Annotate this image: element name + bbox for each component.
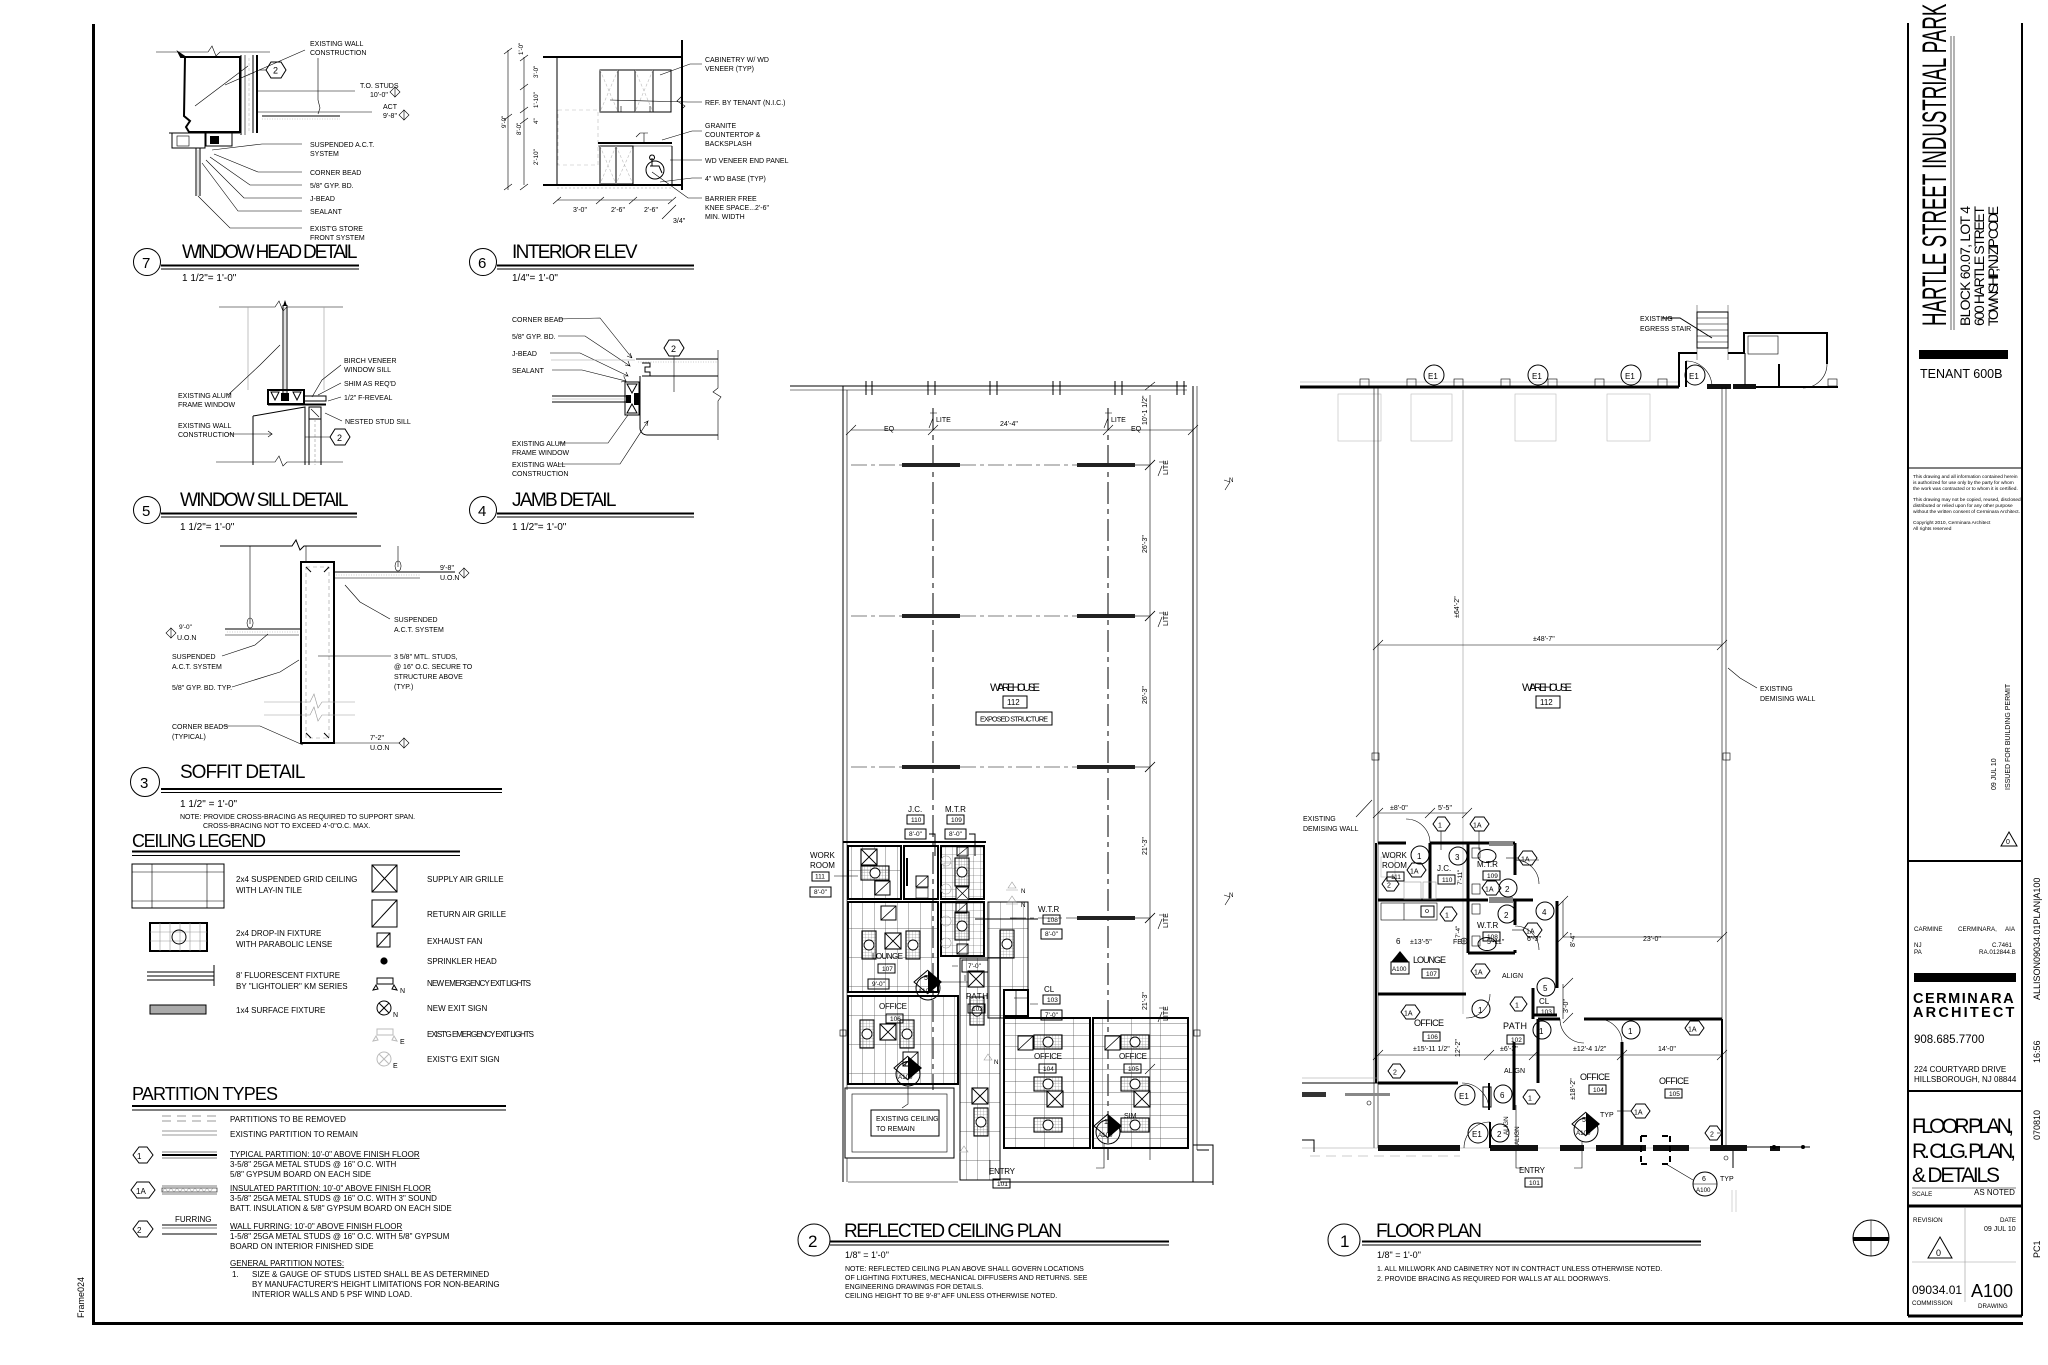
svg-text:EXISTING CEILING: EXISTING CEILING bbox=[876, 1116, 939, 1123]
svg-text:INTERIOR ELEV: INTERIOR ELEV bbox=[512, 242, 638, 263]
svg-text:1A: 1A bbox=[1404, 1011, 1413, 1018]
svg-text:N: N bbox=[1021, 888, 1025, 895]
partition tag hexagon 1A bbox=[1631, 1104, 1650, 1118]
j-bead shape bbox=[642, 363, 650, 376]
svg-text:HARTLE STREET INDUSTRIAL PARK: HARTLE STREET INDUSTRIAL PARK bbox=[1915, 4, 1953, 326]
svg-text:LITE: LITE bbox=[936, 417, 951, 424]
svg-text:HILLSBOROUGH, NJ 08844: HILLSBOROUGH, NJ 08844 bbox=[1914, 1075, 2017, 1084]
svg-text:N: N bbox=[1021, 902, 1025, 909]
svg-text:109: 109 bbox=[951, 817, 962, 824]
svg-text:104: 104 bbox=[1593, 1087, 1604, 1094]
svg-text:CABINETRY W/ WD: CABINETRY W/ WD bbox=[705, 57, 769, 64]
svg-text:109: 109 bbox=[1487, 873, 1498, 880]
svg-text:2: 2 bbox=[273, 66, 278, 76]
svg-text:JAMB DETAIL: JAMB DETAIL bbox=[512, 490, 616, 511]
wall below bbox=[253, 407, 305, 465]
svg-text:WITH LAY-IN TILE: WITH LAY-IN TILE bbox=[236, 886, 302, 895]
svg-text:AS NOTED: AS NOTED bbox=[1974, 1188, 2015, 1197]
beam row 1 bbox=[902, 463, 960, 467]
svg-text:PC1: PC1 bbox=[2032, 1240, 2042, 1258]
svg-text:DEMISING WALL: DEMISING WALL bbox=[1303, 826, 1358, 833]
svg-text:FRAME WINDOW: FRAME WINDOW bbox=[178, 402, 236, 409]
svg-text:SUSPENDED: SUSPENDED bbox=[172, 654, 216, 661]
svg-text:8'-4": 8'-4" bbox=[1570, 933, 1577, 947]
svg-text:PARTITIONS TO BE REMOVED: PARTITIONS TO BE REMOVED bbox=[230, 1115, 346, 1124]
partition tag hexagon 2 bbox=[1388, 1064, 1405, 1078]
svg-text:1.: 1. bbox=[232, 1270, 239, 1279]
svg-text:A.C.T. SYSTEM: A.C.T. SYSTEM bbox=[172, 664, 222, 671]
new emergency exit lights symbol bbox=[377, 978, 393, 984]
svg-text:ISSUED FOR BUILDING PERMIT: ISSUED FOR BUILDING PERMIT bbox=[2005, 683, 2012, 790]
hex 1A above cluster bbox=[1470, 817, 1489, 831]
right wall line bbox=[681, 40, 683, 190]
issue triangle bbox=[2001, 832, 2017, 846]
svg-text:N: N bbox=[393, 1012, 398, 1019]
svg-text:KNEE SPACE...2'-6": KNEE SPACE...2'-6" bbox=[705, 205, 770, 212]
svg-text:1: 1 bbox=[1438, 823, 1442, 830]
door/keynote circle tag 3 bbox=[1449, 847, 1467, 865]
svg-text:112: 112 bbox=[1007, 698, 1020, 707]
right tail stubs bbox=[1732, 1151, 1734, 1168]
svg-text:1A: 1A bbox=[136, 1187, 146, 1196]
svg-text:(TYPICAL): (TYPICAL) bbox=[172, 734, 206, 741]
svg-text:NEW EMERGENCY EXIT LIGHTS: NEW EMERGENCY EXIT LIGHTS bbox=[427, 979, 531, 988]
title underline bbox=[161, 265, 359, 267]
lobby entry door arc bbox=[1686, 361, 1712, 387]
svg-text:±12'-4 1/2": ±12'-4 1/2" bbox=[1573, 1046, 1607, 1053]
svg-text:0: 0 bbox=[1936, 1248, 1941, 1258]
svg-text:CONSTRUCTION: CONSTRUCTION bbox=[310, 50, 366, 57]
svg-text:105: 105 bbox=[1128, 1066, 1139, 1073]
svg-text:2'-6": 2'-6" bbox=[644, 207, 658, 214]
svg-text:TENANT 600B: TENANT 600B bbox=[1920, 367, 2002, 381]
svg-text:A100: A100 bbox=[1576, 1130, 1591, 1137]
svg-text:110: 110 bbox=[911, 817, 922, 824]
work room bbox=[848, 846, 901, 899]
svg-text:9'-0": 9'-0" bbox=[501, 116, 508, 128]
svg-text:A100: A100 bbox=[918, 988, 933, 995]
svg-text:106: 106 bbox=[890, 1016, 901, 1023]
svg-text:103: 103 bbox=[1047, 997, 1058, 1004]
bottom wall right portion bbox=[1000, 1181, 1213, 1183]
svg-text:1: 1 bbox=[1478, 1006, 1483, 1015]
type 1 hexagon bbox=[133, 1147, 153, 1163]
svg-text:without the written consent of: without the written consent of Cerminara… bbox=[1913, 509, 2020, 515]
svg-text:7'-4": 7'-4" bbox=[1455, 926, 1462, 938]
svg-text:SIM: SIM bbox=[1124, 1113, 1137, 1120]
svg-text:14'-0": 14'-0" bbox=[1658, 1046, 1676, 1053]
svg-text:110: 110 bbox=[1442, 877, 1453, 884]
svg-text:PATH: PATH bbox=[1503, 1021, 1527, 1031]
svg-text:EXISTING WALL: EXISTING WALL bbox=[310, 41, 364, 48]
svg-text:5/8" GYP. BD.: 5/8" GYP. BD. bbox=[310, 183, 354, 190]
svg-text:7'-11": 7'-11" bbox=[1457, 870, 1464, 885]
svg-text:8'-0": 8'-0" bbox=[814, 889, 828, 896]
egress stair bbox=[1696, 305, 1698, 360]
suspended ACT line bbox=[258, 111, 372, 113]
svg-text:TYPICAL PARTITION: 10'-0" ABOV: TYPICAL PARTITION: 10'-0" ABOVE FINISH F… bbox=[230, 1150, 420, 1159]
svg-text:A100: A100 bbox=[1392, 966, 1407, 973]
vestibule walls left bbox=[1302, 1082, 1378, 1084]
svg-text:N: N bbox=[1229, 477, 1233, 484]
cluster walls vertical bbox=[1430, 843, 1515, 953]
supply air grille symbol bbox=[372, 865, 397, 892]
title underline bbox=[497, 513, 694, 515]
svg-text:E1: E1 bbox=[1428, 372, 1438, 381]
title bubble 7 bbox=[134, 249, 161, 276]
svg-text:112: 112 bbox=[1540, 698, 1553, 707]
door/keynote circle tag 2 bbox=[1499, 879, 1517, 897]
svg-text:CEILING LEGEND: CEILING LEGEND bbox=[132, 831, 266, 851]
break line top bbox=[219, 301, 343, 311]
break across box bbox=[264, 694, 355, 708]
svg-text:NJ: NJ bbox=[1914, 942, 1922, 949]
separator thick bbox=[1908, 1205, 2022, 1208]
svg-text:INTERIOR WALLS AND 5 PSF WIND: INTERIOR WALLS AND 5 PSF WIND LOAD. bbox=[252, 1290, 412, 1299]
svg-text:U.O.N: U.O.N bbox=[370, 745, 389, 752]
svg-text:4" WD BASE (TYP): 4" WD BASE (TYP) bbox=[705, 176, 766, 183]
svg-text:EXPOSED STRUCTURE: EXPOSED STRUCTURE bbox=[980, 715, 1048, 724]
svg-text:8'-0": 8'-0" bbox=[516, 123, 523, 135]
svg-text:9'-8": 9'-8" bbox=[440, 565, 454, 572]
svg-text:1A: 1A bbox=[1688, 1027, 1697, 1034]
svg-text:M.T.R: M.T.R bbox=[945, 805, 966, 814]
structure above break line bbox=[220, 540, 381, 550]
svg-text:J-BEAD: J-BEAD bbox=[310, 196, 335, 203]
svg-text:COMMISSION: COMMISSION bbox=[1912, 1300, 1953, 1307]
svg-text:1/4"= 1'-0": 1/4"= 1'-0" bbox=[512, 273, 558, 284]
svg-text:6: 6 bbox=[1702, 1176, 1706, 1183]
svg-text:7'-2": 7'-2" bbox=[370, 735, 384, 742]
cluster top dims bbox=[1378, 812, 1467, 814]
wall top line bbox=[636, 358, 718, 360]
svg-text:2: 2 bbox=[1497, 1130, 1502, 1139]
svg-text:BACKSPLASH: BACKSPLASH bbox=[705, 141, 752, 148]
svg-text:EGRESS STAIR: EGRESS STAIR bbox=[1640, 326, 1691, 333]
svg-text:E1: E1 bbox=[1689, 372, 1699, 381]
svg-text:MIN. WIDTH: MIN. WIDTH bbox=[705, 214, 745, 221]
column ticks on top wall bbox=[866, 381, 1184, 395]
svg-text:1'-0": 1'-0" bbox=[518, 43, 525, 55]
svg-text:WAREHOUSE: WAREHOUSE bbox=[1522, 682, 1572, 694]
svg-text:DEMISING WALL: DEMISING WALL bbox=[1760, 696, 1815, 703]
bottom wall pieces of lobby bbox=[1707, 384, 1731, 389]
svg-text:SYSTEM: SYSTEM bbox=[310, 151, 339, 158]
svg-text:102: 102 bbox=[1511, 1037, 1522, 1044]
svg-text:0: 0 bbox=[2006, 839, 2010, 846]
svg-text:107: 107 bbox=[882, 966, 893, 973]
type 1 symbol bbox=[162, 1151, 217, 1153]
office 105 bbox=[1093, 1018, 1188, 1148]
svg-text:5: 5 bbox=[924, 975, 928, 982]
svg-text:2: 2 bbox=[1504, 911, 1509, 920]
separator bbox=[1908, 467, 2022, 469]
wall block bbox=[640, 376, 718, 435]
column line B bbox=[1107, 408, 1109, 1160]
svg-text:EQ: EQ bbox=[1131, 426, 1142, 433]
svg-text:VENEER (TYP): VENEER (TYP) bbox=[705, 66, 754, 73]
beam row 2 bbox=[902, 614, 960, 618]
svg-text:SHIM AS REQ'D: SHIM AS REQ'D bbox=[344, 381, 396, 388]
right wall bottom notch bbox=[1193, 1145, 1213, 1185]
floor line bbox=[543, 184, 683, 186]
svg-text:WORK: WORK bbox=[810, 851, 836, 860]
column line A bbox=[932, 408, 934, 1090]
wall marker squares bbox=[1372, 753, 1379, 760]
svg-text:U.O.N: U.O.N bbox=[440, 575, 459, 582]
svg-text:CORNER BEAD: CORNER BEAD bbox=[512, 317, 563, 324]
svg-text:4": 4" bbox=[533, 118, 540, 124]
svg-text:6: 6 bbox=[1396, 937, 1401, 946]
type 2 symbol bbox=[162, 1224, 217, 1226]
svg-text:NOTE: PROVIDE CROSS-BRACING AS: NOTE: PROVIDE CROSS-BRACING AS REQUIRED … bbox=[180, 814, 415, 821]
title block bottom rule bbox=[1908, 1315, 2022, 1318]
svg-text:E: E bbox=[393, 1063, 398, 1070]
svg-text:OFFICE: OFFICE bbox=[1034, 1052, 1062, 1061]
svg-text:±8'-0": ±8'-0" bbox=[1390, 805, 1408, 812]
hexagon tag 2 bbox=[305, 436, 330, 438]
svg-text:CORNER BEAD: CORNER BEAD bbox=[310, 170, 361, 177]
svg-text:E: E bbox=[400, 1039, 405, 1046]
top dimension line bbox=[851, 429, 1193, 431]
svg-text:AIA: AIA bbox=[2005, 926, 2016, 933]
svg-text:103: 103 bbox=[1541, 1009, 1552, 1016]
svg-text:WINDOW SILL: WINDOW SILL bbox=[344, 367, 391, 374]
partition tag hexagon 1A bbox=[1482, 881, 1501, 895]
svg-text:TOWNSHIP, NJ ZIP CODE: TOWNSHIP, NJ ZIP CODE bbox=[1985, 206, 2001, 326]
detail marker 7 bbox=[908, 1056, 922, 1080]
svg-text:3: 3 bbox=[1455, 853, 1460, 862]
svg-text:NESTED STUD SILL: NESTED STUD SILL bbox=[345, 419, 411, 426]
stair lobby walls bbox=[1679, 333, 1827, 387]
svg-text:2'-6": 2'-6" bbox=[611, 207, 625, 214]
svg-text:1A: 1A bbox=[1485, 887, 1494, 894]
svg-text:GENERAL PARTITION NOTES:: GENERAL PARTITION NOTES: bbox=[230, 1259, 344, 1268]
svg-text:RA.012844.B: RA.012844.B bbox=[1979, 949, 2016, 956]
svg-text:PARTITION TYPES: PARTITION TYPES bbox=[132, 1084, 278, 1104]
revision triangle 0 bbox=[1928, 1237, 1952, 1258]
svg-text:FRONT SYSTEM: FRONT SYSTEM bbox=[310, 235, 365, 242]
svg-text:ACT: ACT bbox=[383, 104, 398, 111]
partition tag hexagon 1A bbox=[1407, 863, 1426, 877]
type 2 hexagon bbox=[133, 1221, 153, 1237]
svg-text:101: 101 bbox=[1529, 1180, 1540, 1187]
partitions to be removed symbol bbox=[162, 1115, 217, 1117]
8' fluorescent symbol bbox=[147, 971, 214, 973]
svg-text:8'-0": 8'-0" bbox=[909, 831, 923, 838]
svg-text:EXIST'G STORE: EXIST'G STORE bbox=[310, 226, 363, 233]
svg-text:1 1/2" = 1'-0": 1 1/2" = 1'-0" bbox=[180, 799, 238, 810]
svg-text:E1: E1 bbox=[1459, 1092, 1469, 1101]
svg-text:5/8" GYP. BD. TYP.: 5/8" GYP. BD. TYP. bbox=[172, 685, 232, 692]
west demising wall bbox=[1373, 387, 1375, 1148]
hexagon tag 2 bbox=[664, 340, 684, 356]
sill frame assembly bbox=[268, 390, 304, 404]
entry doors bbox=[1462, 1083, 1489, 1110]
svg-text:908.685.7700: 908.685.7700 bbox=[1914, 1034, 1984, 1046]
door/keynote circle tag 1 bbox=[1622, 1021, 1640, 1039]
mullion below bbox=[195, 148, 197, 196]
glazing verticals bbox=[282, 305, 284, 398]
svg-text:EXISTING ALUM: EXISTING ALUM bbox=[178, 393, 232, 400]
svg-text:1A: 1A bbox=[1410, 869, 1419, 876]
1x4 surface fixture symbol bbox=[150, 1005, 206, 1014]
svg-text:1: 1 bbox=[1528, 1096, 1532, 1103]
svg-text:102: 102 bbox=[972, 1006, 983, 1013]
svg-text:16:56: 16:56 bbox=[2032, 1040, 2042, 1063]
path 7'-0" tag bbox=[962, 960, 988, 972]
svg-text:ENGINEERING DRAWINGS FOR DETAI: ENGINEERING DRAWINGS FOR DETAILS. bbox=[845, 1284, 984, 1291]
door/keynote circle tag 1 bbox=[1533, 1021, 1551, 1039]
svg-text:106: 106 bbox=[1427, 1034, 1438, 1041]
svg-text:1'-10": 1'-10" bbox=[533, 92, 540, 108]
svg-text:1/2" F-REVEAL: 1/2" F-REVEAL bbox=[344, 395, 392, 402]
partition tag hexagon 1 bbox=[1523, 1090, 1540, 1104]
svg-text:SEALANT: SEALANT bbox=[310, 209, 343, 216]
svg-text:U.O.N: U.O.N bbox=[177, 635, 196, 642]
elevation top line bbox=[543, 56, 683, 58]
break line bottom bbox=[216, 456, 343, 466]
svg-text:EXHAUST FAN: EXHAUST FAN bbox=[427, 937, 483, 946]
svg-text:ENTRY: ENTRY bbox=[1519, 1166, 1546, 1175]
svg-text:09034.01: 09034.01 bbox=[1912, 1283, 1962, 1297]
svg-text:2. PROVIDE BRACING AS REQUIRED: 2. PROVIDE BRACING AS REQUIRED FOR WALLS… bbox=[1377, 1276, 1610, 1283]
beam row 3 bbox=[902, 765, 960, 769]
svg-text:RETURN AIR GRILLE: RETURN AIR GRILLE bbox=[427, 910, 506, 919]
rcp title bubble bbox=[798, 1224, 830, 1256]
bottom dim line bbox=[557, 199, 672, 201]
glass lines bbox=[552, 395, 626, 397]
svg-text:TO REMAIN: TO REMAIN bbox=[876, 1126, 915, 1133]
svg-text:EXISTING WALL: EXISTING WALL bbox=[512, 462, 566, 469]
column line bbox=[1462, 390, 1464, 1014]
svg-text:Frame024: Frame024 bbox=[76, 1277, 86, 1318]
svg-text:1 1/2"= 1'-0": 1 1/2"= 1'-0" bbox=[180, 522, 235, 533]
svg-text:1: 1 bbox=[137, 1152, 142, 1161]
svg-text:& DETAILS: & DETAILS bbox=[1912, 1164, 2000, 1187]
svg-text:CROSS-BRACING NOT TO EXCEED 4': CROSS-BRACING NOT TO EXCEED 4'-0"O.C. MA… bbox=[203, 823, 370, 830]
title bubble 5 bbox=[134, 497, 161, 524]
door/keynote circle tag 5 bbox=[1537, 978, 1555, 996]
wheelchair symbol bbox=[646, 161, 664, 179]
svg-text:5: 5 bbox=[1543, 984, 1548, 993]
title block left rule bbox=[1907, 23, 1909, 1316]
existing partition symbol bbox=[162, 1130, 217, 1132]
title underline bbox=[161, 788, 502, 790]
svg-text:3'-0": 3'-0" bbox=[1563, 999, 1570, 1013]
svg-text:2: 2 bbox=[671, 344, 676, 354]
left wall line bbox=[556, 57, 558, 185]
svg-text:E1: E1 bbox=[1532, 372, 1542, 381]
svg-text:INSULATED PARTITION: 10'-0" AB: INSULATED PARTITION: 10'-0" ABOVE FINISH… bbox=[230, 1184, 431, 1193]
dims row lower bbox=[1378, 1054, 1722, 1056]
svg-text:ROOM: ROOM bbox=[1382, 861, 1407, 870]
svg-text:1/8" = 1'-0": 1/8" = 1'-0" bbox=[845, 1250, 889, 1260]
width dim line bbox=[1378, 644, 1722, 646]
sheet border left bbox=[92, 24, 95, 1325]
svg-text:2: 2 bbox=[1710, 1132, 1714, 1139]
mtr109 fixtures bbox=[1478, 850, 1496, 863]
svg-text:PA: PA bbox=[1914, 949, 1923, 956]
gray door panels bbox=[1489, 897, 1513, 903]
svg-text:(TYP.): (TYP.) bbox=[394, 684, 413, 691]
svg-text:1: 1 bbox=[1340, 1232, 1349, 1251]
svg-text:TYP: TYP bbox=[1600, 1112, 1614, 1119]
svg-text:EXIST'G EMERGENCY EXIT LIGHTS: EXIST'G EMERGENCY EXIT LIGHTS bbox=[427, 1030, 534, 1039]
svg-text:A100: A100 bbox=[1098, 1132, 1113, 1139]
hex 1 above cluster bbox=[1433, 817, 1450, 831]
svg-text:09 JUL 10: 09 JUL 10 bbox=[1984, 1226, 2016, 1233]
svg-text:WORK: WORK bbox=[1382, 851, 1408, 860]
svg-text:This drawing and all informati: This drawing and all information contain… bbox=[1913, 474, 2018, 480]
svg-text:REFLECTED CEILING PLAN: REFLECTED CEILING PLAN bbox=[844, 1221, 1062, 1242]
svg-text:1A: 1A bbox=[1521, 857, 1530, 864]
svg-text:7'-0": 7'-0" bbox=[968, 963, 982, 970]
svg-text:CONSTRUCTION: CONSTRUCTION bbox=[178, 432, 234, 439]
svg-text:WALL FURRING: 10'-0" ABOVE FIN: WALL FURRING: 10'-0" ABOVE FINISH FLOOR bbox=[230, 1222, 402, 1231]
svg-text:This drawing may not be copied: This drawing may not be copied, reused, … bbox=[1913, 497, 2022, 503]
svg-text:CONSTRUCTION: CONSTRUCTION bbox=[512, 471, 568, 478]
svg-text:SCALE: SCALE bbox=[1912, 1191, 1932, 1198]
svg-text:10'-1 1/2": 10'-1 1/2" bbox=[1142, 395, 1149, 425]
svg-text:1: 1 bbox=[1104, 1119, 1108, 1126]
soffit stud box bbox=[301, 562, 334, 743]
svg-text:5/8" GYPSUM BOARD ON EACH SIDE: 5/8" GYPSUM BOARD ON EACH SIDE bbox=[230, 1170, 371, 1179]
svg-text:1: 1 bbox=[1445, 913, 1449, 920]
svg-text:OFFICE: OFFICE bbox=[1414, 1018, 1444, 1028]
cluster walls horizontal bbox=[1378, 842, 1515, 845]
cl lite top A bbox=[929, 413, 937, 428]
east demising wall bbox=[1721, 387, 1723, 1148]
svg-text:OFFICE: OFFICE bbox=[1580, 1072, 1610, 1082]
svg-text:E1: E1 bbox=[1625, 372, 1635, 381]
svg-text:CL: CL bbox=[1044, 985, 1055, 994]
north exterior wall bbox=[1300, 386, 1679, 389]
door/keynote circle tag 6 bbox=[1494, 1085, 1512, 1103]
svg-text:E1: E1 bbox=[1472, 1130, 1482, 1139]
svg-text:1A: 1A bbox=[1526, 929, 1535, 936]
svg-text:2: 2 bbox=[1505, 885, 1510, 894]
svg-text:SEALANT: SEALANT bbox=[512, 368, 545, 375]
svg-text:8' FLUORESCENT FIXTURE: 8' FLUORESCENT FIXTURE bbox=[236, 971, 340, 980]
svg-text:3-5/8" 25GA METAL STUDS @ 16": 3-5/8" 25GA METAL STUDS @ 16" O.C. WITH … bbox=[230, 1194, 437, 1203]
office 106 bbox=[848, 996, 958, 1084]
exposed structure tag bbox=[976, 712, 1052, 725]
svg-text:EXISTING: EXISTING bbox=[1303, 816, 1336, 823]
svg-text:DRAWING: DRAWING bbox=[1978, 1303, 2008, 1310]
svg-text:3'-0": 3'-0" bbox=[533, 66, 540, 78]
existing emergency exit lights symbol bbox=[377, 1029, 393, 1035]
svg-text:1: 1 bbox=[1417, 852, 1422, 861]
dimension chain left bbox=[507, 50, 509, 190]
svg-text:LITE: LITE bbox=[1111, 417, 1126, 424]
svg-text:101: 101 bbox=[997, 1181, 1008, 1188]
break line top bbox=[156, 46, 270, 56]
svg-text:±6'-3": ±6'-3" bbox=[1500, 1046, 1518, 1053]
svg-text:104: 104 bbox=[1043, 1066, 1054, 1073]
svg-text:3/4": 3/4" bbox=[673, 218, 686, 225]
svg-text:3: 3 bbox=[140, 775, 148, 792]
svg-text:105: 105 bbox=[1669, 1091, 1680, 1098]
svg-text:3-5/8" 25GA METAL STUDS @ 16": 3-5/8" 25GA METAL STUDS @ 16" O.C. WITH bbox=[230, 1160, 397, 1169]
svg-text:±15'-11 1/2": ±15'-11 1/2" bbox=[1413, 1046, 1450, 1053]
partition tag hexagon 1A bbox=[1401, 1005, 1420, 1019]
svg-text:±18'-2": ±18'-2" bbox=[1570, 1078, 1577, 1100]
svg-text:WAREHOUSE: WAREHOUSE bbox=[990, 682, 1040, 694]
svg-text:EXISTING PARTITION TO REMAIN: EXISTING PARTITION TO REMAIN bbox=[230, 1130, 358, 1139]
path corridor bbox=[960, 958, 1000, 1180]
svg-text:DATE: DATE bbox=[2000, 1217, 2016, 1224]
